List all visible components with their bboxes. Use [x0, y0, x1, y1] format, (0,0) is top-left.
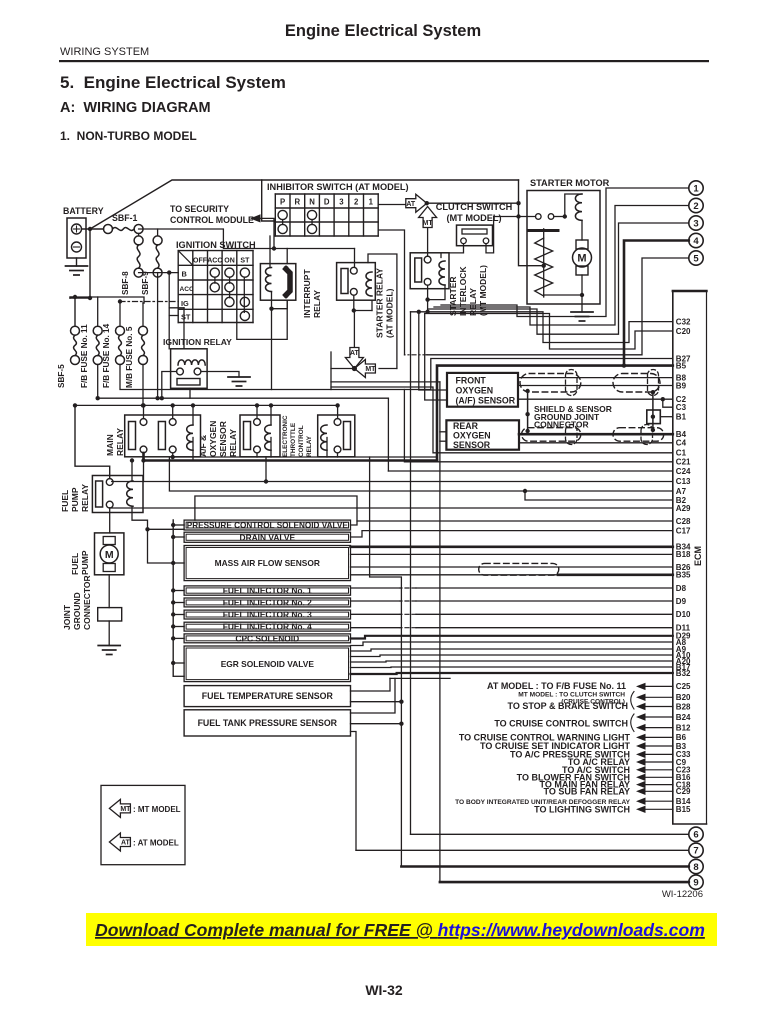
- svg-text:RELAY: RELAY: [80, 484, 90, 512]
- wire B16 arrow: [636, 774, 646, 781]
- wire bus1 riser to C24: [387, 398, 389, 471]
- terminal 4: [689, 233, 703, 247]
- wire rear oxygen left wires: [440, 431, 447, 433]
- svg-text:D10: D10: [676, 610, 691, 619]
- wire D10: [416, 613, 673, 615]
- svg-text:F/B FUSE No. 11: F/B FUSE No. 11: [80, 324, 89, 388]
- svg-text:C21: C21: [676, 458, 691, 467]
- wire C20: [425, 314, 673, 350]
- resistor to B1: [647, 410, 661, 424]
- svg-text:ST: ST: [240, 257, 250, 264]
- svg-text:AT MODEL : TO F/B FUSE No. 11: AT MODEL : TO F/B FUSE No. 11: [487, 681, 626, 691]
- svg-text:THROTTLE: THROTTLE: [290, 422, 297, 457]
- wire D8: [416, 587, 673, 589]
- wire SBF-1 to SBF-8: [138, 234, 140, 236]
- wire inhibitor row1 to AT arrow: [378, 204, 406, 206]
- svg-text:MT: MT: [423, 220, 434, 227]
- svg-text:C3: C3: [676, 403, 687, 412]
- terminal 2: [689, 198, 703, 212]
- connector dashed top right: [613, 374, 660, 393]
- svg-text:AT: AT: [350, 350, 360, 357]
- svg-text:B5: B5: [676, 361, 687, 370]
- wire C13: [144, 461, 673, 482]
- svg-text:B9: B9: [676, 381, 687, 390]
- svg-text:(A/F) SENSOR: (A/F) SENSOR: [456, 396, 516, 406]
- svg-text:SENSOR: SENSOR: [218, 421, 228, 457]
- wire M/B fuse 5 down: [142, 365, 144, 406]
- svg-text:ACC: ACC: [180, 286, 195, 293]
- svg-text:STARTER MOTOR: STARTER MOTOR: [530, 178, 610, 188]
- svg-text:ST: ST: [181, 313, 191, 322]
- svg-text:CONNECTOR: CONNECTOR: [82, 575, 92, 630]
- wire SBF-1 to SBF-9: [139, 229, 158, 236]
- svg-text:C28: C28: [676, 517, 691, 526]
- svg-text:8: 8: [693, 862, 698, 873]
- wire ignition ST row to ignition relay: [169, 315, 178, 317]
- legend MT arrow: [109, 799, 131, 817]
- wire fuel pump relay to pump: [109, 508, 111, 533]
- svg-text:TO CRUISE CONTROL SWITCH: TO CRUISE CONTROL SWITCH: [494, 718, 628, 728]
- terminal 7: [689, 843, 703, 857]
- wire fuse to starter rail: [158, 229, 355, 249]
- svg-text:C29: C29: [676, 787, 691, 796]
- wire A7: [169, 457, 672, 491]
- AT arrow at inhibitor output: [406, 194, 427, 212]
- svg-text:SBF-8: SBF-8: [121, 271, 130, 295]
- wire fuel pump to joint ground: [108, 575, 110, 608]
- wire D11: [416, 627, 673, 629]
- wire ignition relay to ground: [201, 372, 239, 378]
- svg-text:FUEL INJECTOR No. 2: FUEL INJECTOR No. 2: [223, 597, 312, 607]
- wire A20: [351, 661, 673, 662]
- svg-text:ON: ON: [224, 257, 235, 264]
- svg-text:STARTER RELAY: STARTER RELAY: [375, 268, 385, 338]
- wire terminal 7 horizontal: [356, 849, 689, 851]
- svg-text:5: 5: [693, 253, 699, 264]
- AT arrow mid: [345, 348, 363, 369]
- wire ignition switch ST column down: [237, 300, 287, 339]
- svg-text:STARTER: STARTER: [448, 276, 458, 316]
- svg-text:OXYGEN: OXYGEN: [208, 421, 218, 457]
- ECM box: [673, 291, 707, 824]
- svg-text:B1: B1: [676, 413, 687, 422]
- wire B4 bold: [519, 433, 673, 436]
- wire B3 arrow: [636, 742, 646, 749]
- svg-text:MT: MT: [120, 806, 131, 813]
- wire starter feed vertical: [519, 180, 544, 266]
- wire joint ground to ground: [108, 621, 110, 646]
- wire to terminal 3: [428, 223, 689, 334]
- wire B8: [518, 377, 673, 379]
- svg-text:C4: C4: [676, 439, 687, 448]
- svg-text:2: 2: [354, 198, 359, 207]
- svg-text:B20: B20: [676, 693, 691, 702]
- svg-text:M: M: [577, 253, 586, 265]
- svg-text:FRONT: FRONT: [456, 376, 487, 386]
- svg-text:D9: D9: [676, 597, 687, 606]
- svg-text:3: 3: [693, 218, 698, 229]
- svg-text:EGR SOLENOID VALVE: EGR SOLENOID VALVE: [221, 659, 315, 669]
- svg-text:GROUND: GROUND: [72, 592, 82, 630]
- wire F/B fuse 14 long bus: [120, 365, 431, 390]
- svg-text:OFF: OFF: [193, 257, 208, 264]
- wire terminal 9 riser west line: [331, 381, 440, 383]
- svg-text:N: N: [309, 198, 315, 207]
- svg-text:M/B FUSE No. 5: M/B FUSE No. 5: [125, 326, 134, 388]
- svg-text:P: P: [280, 198, 285, 207]
- connector dashed bottom left pair: [566, 425, 578, 445]
- svg-text:TO SUB FAN RELAY: TO SUB FAN RELAY: [543, 786, 630, 796]
- wire fuel pump relay coil top to bold bus: [131, 461, 133, 482]
- wire starter relay coil top loop: [368, 254, 397, 369]
- wire C17: [351, 531, 673, 537]
- starter motor M: [581, 220, 583, 240]
- wire B5 bold: [437, 366, 673, 461]
- svg-text:C20: C20: [676, 327, 691, 336]
- svg-text:IGNITION RELAY: IGNITION RELAY: [163, 337, 232, 347]
- wire diagonal battery to top rail: [90, 180, 519, 229]
- wire terminal 6 horizontal: [411, 833, 689, 835]
- svg-text:FUEL INJECTOR No. 1: FUEL INJECTOR No. 1: [223, 586, 312, 596]
- svg-text:TO LIGHTING SWITCH: TO LIGHTING SWITCH: [534, 804, 630, 814]
- connector dashed bottom right: [613, 428, 664, 442]
- svg-text:7: 7: [693, 846, 698, 857]
- svg-text:C32: C32: [676, 317, 691, 326]
- wire SBF-9 drop to relay bus: [157, 273, 159, 399]
- wire to terminal 1: [441, 188, 689, 317]
- wire fuse top bus: [75, 297, 144, 303]
- wire B26: [351, 566, 673, 568]
- mass air flow sensor: [184, 546, 350, 581]
- svg-text:B28: B28: [676, 702, 691, 711]
- wire D29 bold: [351, 636, 673, 639]
- wire clutch switch right to starter feed: [486, 217, 519, 253]
- svg-text:C1: C1: [676, 449, 687, 458]
- wire battery feed down left side: [70, 229, 90, 298]
- svg-text:FUEL TANK PRESSURE SENSOR: FUEL TANK PRESSURE SENSOR: [198, 718, 338, 728]
- battery ground: [76, 258, 78, 266]
- wire ignition relay bottom to bus: [189, 388, 191, 398]
- wire SBF-5 down to fuel pump relay contact: [75, 405, 110, 478]
- connector dashed top left pair: [566, 370, 578, 396]
- wire B24 arrow: [636, 713, 646, 720]
- svg-text:C17: C17: [676, 526, 691, 535]
- wire C18 arrow: [636, 781, 646, 788]
- wire drop to terminal 8: [370, 457, 402, 867]
- wire inhibitor row2 to terminal5 riser: [378, 230, 404, 355]
- wire to security control module: [261, 218, 274, 248]
- wire front oxygen left wire 1: [419, 312, 447, 390]
- svg-text:B15: B15: [676, 805, 691, 814]
- svg-text:SENSOR: SENSOR: [453, 440, 491, 450]
- wire C4: [519, 442, 673, 444]
- svg-text:RELAY: RELAY: [312, 290, 322, 318]
- svg-text:1: 1: [369, 198, 374, 207]
- wire fuel pump relay contact top to C13 junction: [112, 481, 144, 483]
- terminal 5: [689, 251, 703, 265]
- wire to terminal 2: [434, 206, 689, 326]
- svg-text:(MT MODEL): (MT MODEL): [478, 265, 488, 316]
- wire C32: [411, 312, 673, 343]
- svg-text:IG: IG: [181, 299, 189, 308]
- svg-text:9: 9: [693, 878, 698, 889]
- wire B34 bold: [351, 545, 673, 548]
- fuel injector No. 3: [184, 610, 350, 619]
- wire C24: [388, 470, 672, 472]
- wire B28 arrow: [636, 703, 646, 710]
- svg-text:M: M: [105, 549, 114, 561]
- svg-text:CONTROL MODULE: CONTROL MODULE: [170, 215, 254, 225]
- wire C25 arrow: [636, 683, 646, 690]
- wire C21: [404, 390, 672, 462]
- svg-text:MAIN: MAIN: [105, 434, 115, 456]
- wire to terminal 4 bold: [624, 241, 689, 366]
- starter relay (AT model): [337, 263, 376, 301]
- svg-text:5. Engine Electrical System: 5. Engine Electrical System: [60, 73, 286, 92]
- MT arrow mid: [354, 360, 376, 378]
- wire battery positive node: [82, 228, 104, 230]
- svg-text:A29: A29: [676, 504, 691, 513]
- wire relay top bus 2: [75, 404, 338, 406]
- svg-text:A/F &: A/F &: [198, 435, 208, 457]
- svg-text:MT MODEL : TO CLUTCH SWITCH: MT MODEL : TO CLUTCH SWITCH: [518, 692, 625, 699]
- starter motor solenoid: [543, 229, 545, 297]
- wire interrupt relay contact top: [286, 249, 288, 264]
- svg-text:B18: B18: [676, 550, 691, 559]
- wire shield vertical right: [652, 392, 654, 430]
- wire D9: [416, 600, 673, 602]
- wire B2 branch from A7: [523, 489, 527, 493]
- svg-text:JOINT: JOINT: [62, 604, 72, 630]
- wire C9 arrow: [636, 758, 646, 765]
- wire fuel temperature sensor outputs: [351, 678, 391, 691]
- wire MT arrow to interlock coil: [427, 228, 429, 256]
- wire C1: [331, 387, 673, 453]
- wire B9: [518, 385, 673, 387]
- wire interlock relay bottom: [427, 285, 429, 312]
- svg-text:WI-12206: WI-12206: [662, 889, 703, 900]
- wire terminal 6 drop: [410, 312, 412, 835]
- wire inhibitor feed from top rail: [262, 180, 276, 221]
- svg-text:OXYGEN: OXYGEN: [453, 431, 491, 441]
- svg-text:D8: D8: [676, 584, 687, 593]
- wire rear oxygen to terminal 9 drop: [439, 382, 441, 882]
- svg-text:INHIBITOR SWITCH (AT MODEL): INHIBITOR SWITCH (AT MODEL): [267, 182, 409, 192]
- svg-text:A: WIRING DIAGRAM: A: WIRING DIAGRAM: [60, 100, 211, 116]
- svg-text:CONTROL: CONTROL: [298, 425, 305, 457]
- wire B18: [351, 553, 673, 555]
- fuel injector No. 2: [184, 598, 350, 607]
- wire B20 arrow: [636, 694, 646, 701]
- wire B6 arrow: [636, 734, 646, 741]
- ground joint ground connector: [98, 645, 120, 647]
- svg-text:R: R: [295, 198, 301, 207]
- interrupt relay: [260, 264, 295, 301]
- wire terminal 9 horizontal: [440, 881, 689, 884]
- connector dashed B26/B35: [479, 563, 559, 575]
- svg-text:SBF-1: SBF-1: [112, 213, 138, 223]
- svg-text:SBF-9: SBF-9: [141, 271, 150, 295]
- terminal 1: [689, 181, 703, 195]
- wire relay bottoms: [256, 453, 258, 457]
- svg-text:FUEL INJECTOR No. 4: FUEL INJECTOR No. 4: [223, 622, 312, 632]
- MT arrow to interlock relay: [419, 207, 437, 228]
- svg-text:: AT MODEL: : AT MODEL: [133, 839, 179, 848]
- svg-text:: MT MODEL: : MT MODEL: [133, 805, 181, 814]
- wire to terminal 5: [427, 258, 689, 355]
- wire SBF-8/9 to ignition switch B: [139, 272, 179, 274]
- arrow to security control module: [250, 214, 261, 222]
- svg-text:RELAY: RELAY: [115, 428, 125, 456]
- header rule: [59, 60, 709, 62]
- svg-text:1: 1: [693, 183, 699, 194]
- wire B35 bold: [558, 573, 673, 576]
- front oxygen A/F sensor: [447, 373, 518, 407]
- svg-text:BATTERY: BATTERY: [63, 206, 104, 216]
- wire starter motor to ground: [581, 295, 583, 312]
- ground ignition relay: [228, 376, 250, 378]
- wire clutch switch left to interlock relay: [441, 244, 464, 258]
- svg-text:AT: AT: [121, 840, 131, 847]
- svg-text:2: 2: [693, 201, 698, 212]
- svg-text:ELECTRONIC: ELECTRONIC: [282, 415, 289, 457]
- wire pressure control box lower stub: [148, 528, 185, 530]
- fuel tank pressure sensor: [184, 710, 350, 736]
- fuel injector No. 4: [184, 622, 350, 631]
- svg-text:AT: AT: [406, 201, 416, 208]
- terminal 8: [689, 859, 703, 873]
- fuel injector No. 1: [184, 586, 350, 595]
- wire B1 pin stub: [660, 416, 673, 418]
- wire sensor left stubs: [173, 524, 184, 526]
- wire A9: [351, 649, 673, 651]
- svg-text:D: D: [324, 198, 330, 207]
- wire AT/MT node to starter motor: [427, 202, 519, 204]
- svg-text:ECM: ECM: [693, 546, 703, 566]
- svg-text:TO SECURITY: TO SECURITY: [170, 204, 229, 214]
- legend AT arrow: [109, 833, 130, 851]
- svg-text:FUEL: FUEL: [60, 490, 70, 512]
- svg-text:F/B FUSE No. 14: F/B FUSE No. 14: [102, 323, 111, 388]
- connector dashed bottom right pair: [641, 425, 653, 445]
- CPC solenoid: [184, 634, 350, 643]
- wire sensor left bus: [172, 520, 174, 676]
- svg-text:FUEL TEMPERATURE SENSOR: FUEL TEMPERATURE SENSOR: [202, 691, 334, 701]
- terminal 6: [689, 827, 703, 841]
- svg-text:RELAY: RELAY: [306, 435, 313, 457]
- svg-text:C25: C25: [676, 682, 691, 691]
- wire front oxygen left wire 2: [425, 314, 447, 401]
- svg-text:(AT MODEL): (AT MODEL): [385, 288, 395, 338]
- svg-text:3: 3: [339, 198, 344, 207]
- wire interrupt relay to lower bus: [271, 309, 273, 390]
- legend box: [101, 785, 185, 864]
- svg-text:PUMP: PUMP: [80, 550, 90, 575]
- svg-text:C24: C24: [676, 467, 691, 476]
- svg-text:B35: B35: [676, 571, 691, 580]
- wire fuel pump relay contact bottom to A29: [109, 507, 111, 509]
- svg-text:SBF-5: SBF-5: [57, 364, 66, 388]
- wire starter relay to AT arrow: [353, 311, 355, 349]
- wire relay top bus 1: [98, 397, 389, 399]
- wire A29: [110, 507, 673, 509]
- connector dashed bottom left: [522, 428, 581, 442]
- svg-text:OXYGEN: OXYGEN: [456, 386, 494, 396]
- terminal 3: [689, 216, 703, 230]
- wire pressure control supply from relay bus: [195, 496, 357, 521]
- wire B14 arrow: [636, 798, 646, 805]
- wire shield vertical left: [527, 391, 529, 431]
- wire C2: [518, 398, 673, 400]
- svg-text:Download Complete manual for F: Download Complete manual for FREE @ http…: [95, 920, 705, 940]
- wire C33 arrow: [636, 751, 646, 758]
- wire main relay bottom 2: [173, 453, 437, 457]
- svg-text:6: 6: [693, 830, 698, 841]
- svg-text:PRESSURE CONTROL SOLENOID VALV: PRESSURE CONTROL SOLENOID VALVE: [187, 521, 349, 530]
- wire ignition relay left contact to bus: [162, 372, 177, 399]
- wire interrupt relay bottom: [272, 292, 288, 309]
- svg-text:FUEL INJECTOR No. 3: FUEL INJECTOR No. 3: [223, 610, 312, 620]
- svg-text:1. NON-TURBO MODEL: 1. NON-TURBO MODEL: [60, 129, 197, 143]
- svg-text:4: 4: [693, 236, 699, 247]
- wire B32 bold: [351, 673, 673, 674]
- wire B17: [351, 666, 673, 669]
- inhibitor switch contacts: [278, 210, 287, 219]
- wire B12 arrow: [636, 724, 646, 731]
- starter motor coil: [565, 194, 582, 217]
- wire C28: [351, 521, 673, 525]
- svg-text:REAR: REAR: [453, 421, 479, 431]
- ignition switch contacts: [210, 268, 219, 277]
- wire starter relay bottom junction: [353, 295, 355, 310]
- wire A10: [351, 655, 673, 657]
- wire C29 arrow: [636, 788, 646, 795]
- wire C23 arrow: [636, 766, 646, 773]
- wire ignition IG row dash-dot: [120, 301, 178, 303]
- svg-text:MASS AIR FLOW SENSOR: MASS AIR FLOW SENSOR: [215, 558, 320, 568]
- footer download banner: [86, 913, 717, 946]
- svg-text:WIRING SYSTEM: WIRING SYSTEM: [60, 46, 149, 58]
- battery: [67, 218, 86, 258]
- wire interrupt relay coil from inhibitor: [269, 236, 271, 268]
- wire MT arrow tail east: [379, 368, 397, 370]
- drain valve: [184, 532, 350, 542]
- svg-text:C13: C13: [676, 477, 691, 486]
- wire starter relay contact top: [354, 249, 356, 268]
- connector dashed top left: [520, 374, 581, 393]
- wire main relay bottom bold bus: [144, 453, 438, 461]
- svg-text:B24: B24: [676, 713, 691, 722]
- wire ignition relay coil feed: [183, 308, 185, 349]
- svg-text:B12: B12: [676, 723, 691, 732]
- wire C3: [663, 399, 673, 407]
- rear oxygen sensor: [446, 420, 519, 449]
- svg-text:FUEL: FUEL: [70, 553, 80, 575]
- terminal 9: [689, 875, 703, 889]
- fuel temperature sensor: [184, 686, 350, 707]
- svg-text:TO STOP & BRAKE SWITCH: TO STOP & BRAKE SWITCH: [507, 701, 628, 711]
- wire fuel pump relay coil bottom to mass air flow bus: [132, 506, 173, 563]
- svg-text:WI-32: WI-32: [365, 982, 403, 998]
- wire terminal 5 dash-dot segment: [405, 354, 428, 356]
- wire A8: [351, 642, 673, 646]
- starter motor terminals: [536, 214, 542, 220]
- pressure control solenoid valve: [184, 520, 350, 530]
- svg-text:Engine Electrical System: Engine Electrical System: [285, 22, 481, 40]
- svg-text:DRAIN VALVE: DRAIN VALVE: [240, 532, 296, 542]
- starter interlock relay (MT model): [410, 253, 449, 289]
- wire B27: [431, 359, 673, 390]
